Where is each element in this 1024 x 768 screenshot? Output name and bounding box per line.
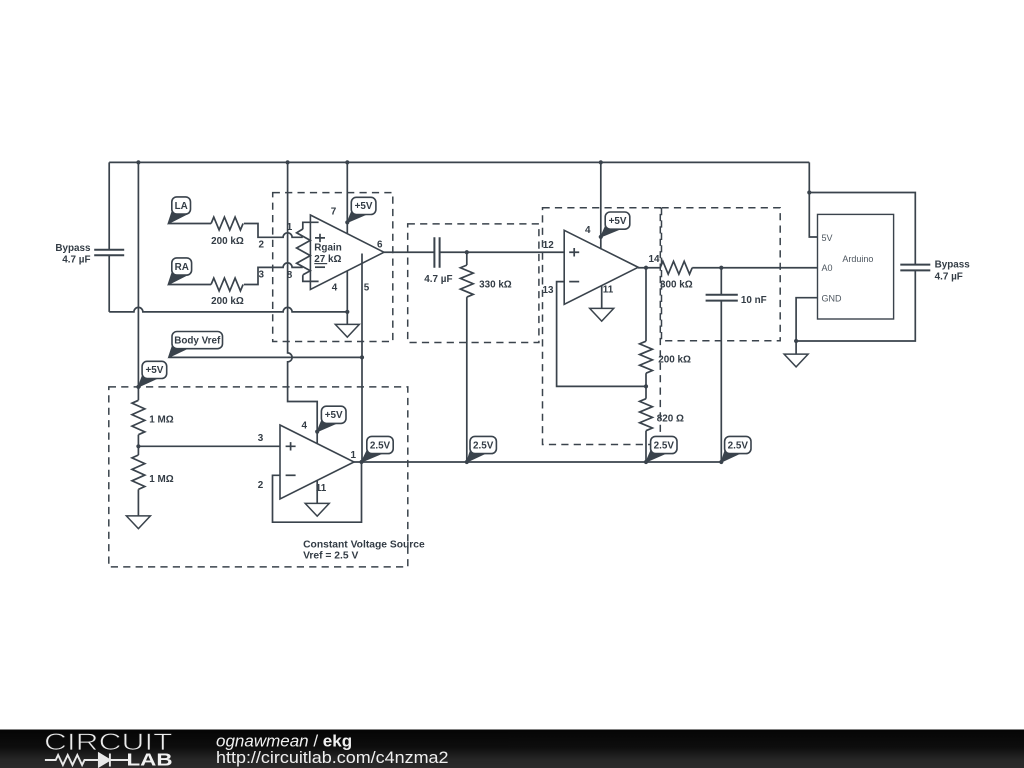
- resistor Rgain zigzag: [297, 229, 311, 275]
- wire 10nF upper lead: [720, 268, 722, 295]
- svg-text:LA: LA: [175, 201, 188, 212]
- svg-text:6: 6: [377, 240, 383, 251]
- wire divider mid to U3 pin3: [138, 445, 280, 447]
- wire R8 to ground: [137, 489, 139, 516]
- part Arduino box: [818, 214, 894, 319]
- resistor R6 820 zigzag: [640, 399, 653, 431]
- wire 10nF to 2.5V rail: [720, 301, 722, 462]
- node junction Arduino ground: [794, 339, 798, 343]
- node junction rail 330k: [465, 460, 469, 464]
- dashed box high-pass filter: [408, 224, 539, 343]
- svg-text:2.5V: 2.5V: [473, 440, 494, 451]
- resistor Rgain pin1 stub: [303, 222, 319, 229]
- node dot divider flag attach: [136, 385, 140, 389]
- node junction top rail x=138: [136, 160, 140, 164]
- svg-text:LAB: LAB: [127, 750, 173, 768]
- resistor R8 1M zigzag: [132, 455, 145, 489]
- node junction feedback divider: [644, 384, 648, 388]
- wire U3 output: [354, 461, 721, 463]
- wire +5V to U2 pin4: [600, 162, 602, 249]
- wire U1 pin6 to C2: [384, 251, 434, 253]
- svg-text:2.5V: 2.5V: [370, 440, 391, 451]
- svg-text:4: 4: [302, 420, 308, 431]
- wire U2 pin11 to ground: [601, 286, 603, 309]
- dashed box gain stage: [543, 208, 661, 445]
- svg-text:300 kΩ: 300 kΩ: [660, 280, 693, 291]
- wire RA to R2: [168, 284, 211, 286]
- wire U1 pin5 ref: [361, 254, 363, 463]
- wire Arduino 5V pin: [809, 193, 817, 238]
- node junction top rail x=600: [599, 160, 603, 164]
- resistor R6 820 lead: [645, 386, 647, 398]
- wire +5V to U1 pin7: [346, 162, 348, 233]
- svg-text:+5V: +5V: [355, 201, 373, 212]
- flag RA: [168, 271, 190, 285]
- wire U3 pin2 feedback: [273, 462, 362, 522]
- ground symbol below U2: [590, 308, 614, 321]
- node junction pin5 Body Vref: [360, 355, 364, 359]
- svg-text:RA: RA: [175, 262, 189, 273]
- svg-text:12: 12: [543, 240, 554, 251]
- node junction top rail x=287: [286, 160, 290, 164]
- resistor Rgain pin8 stub: [303, 275, 319, 281]
- ground symbol below divider: [126, 516, 150, 529]
- wire Body Vref net: [169, 356, 362, 358]
- svg-text:Bypass: Bypass: [55, 243, 91, 254]
- svg-text:4: 4: [585, 225, 591, 236]
- resistor R1 200k zigzag: [211, 217, 243, 230]
- svg-text:10 nF: 10 nF: [741, 295, 767, 306]
- logo resistor diode glyph: [45, 754, 128, 767]
- op-amp U3 triangle: [280, 425, 354, 499]
- wire Arduino GND pin: [796, 298, 817, 341]
- node junction U3 out: [359, 460, 363, 464]
- svg-text:+5V: +5V: [609, 216, 627, 227]
- svg-text:1: 1: [287, 222, 293, 233]
- wire R7 to mid: [137, 435, 139, 447]
- op-amp U1 triangle: [310, 215, 384, 290]
- capacitor C1 Bypass 4.7uF plates: [94, 250, 124, 256]
- resistor R3 330k lead: [466, 252, 468, 265]
- wire left +5V drop to bypass cap C1: [108, 162, 110, 249]
- node junction divider mid: [136, 444, 140, 448]
- svg-text:5V: 5V: [822, 233, 833, 243]
- wire to right bypass cap top: [809, 193, 915, 265]
- op-amp U2 triangle: [564, 230, 638, 304]
- op-amp U2 plus: [569, 248, 579, 256]
- wire R2 to U1 pin3: [244, 263, 303, 285]
- wire +5V drop x=138 to divider: [137, 162, 139, 400]
- dashed box Constant Voltage Source: [109, 387, 408, 567]
- flag +5V at U2 pin4: [601, 225, 623, 237]
- svg-text:GND: GND: [822, 293, 843, 303]
- wire R4 to A0: [692, 267, 817, 269]
- ground symbol below Arduino: [784, 354, 808, 367]
- wire LA to R1: [168, 223, 211, 225]
- svg-text:3: 3: [258, 433, 264, 444]
- svg-text:1 MΩ: 1 MΩ: [149, 414, 173, 425]
- wire R1 to U1 pin2: [244, 224, 303, 238]
- wire C2 to U2 pin12: [440, 251, 565, 253]
- svg-text:1 MΩ: 1 MΩ: [149, 474, 173, 485]
- wire +5V rail to Arduino corner: [808, 162, 810, 192]
- wire Arduino gnd stub: [795, 341, 797, 354]
- node junction rail 10nF: [719, 460, 723, 464]
- op-amp U3 minus: [286, 474, 296, 476]
- svg-text:2: 2: [259, 240, 265, 251]
- svg-text:8: 8: [287, 270, 293, 281]
- node junction rail 820: [644, 460, 648, 464]
- capacitor C2 4.7uF plates: [434, 237, 439, 267]
- svg-text:+5V: +5V: [325, 410, 343, 421]
- node dot U1 pin7 flag attach: [345, 220, 349, 224]
- svg-text:5: 5: [364, 282, 370, 293]
- node junction U2 output: [644, 266, 648, 270]
- svg-text:7: 7: [331, 207, 337, 218]
- node junction U1 pin4 ground net: [345, 310, 349, 314]
- wire U2 pin14 out: [638, 267, 660, 269]
- svg-text:14: 14: [649, 254, 660, 265]
- flag +5V at divider: [138, 374, 160, 387]
- flag LA: [168, 210, 190, 224]
- svg-text:2.5V: 2.5V: [654, 440, 675, 451]
- resistor R3 330k zigzag: [460, 265, 473, 297]
- wire R6 to 2.5V rail: [645, 431, 647, 462]
- svg-text:2.5V: 2.5V: [728, 440, 749, 451]
- wire ground link to bypass cap bottom: [796, 270, 915, 341]
- dashed box instrumentation stage: [273, 193, 393, 342]
- svg-text:1: 1: [351, 450, 357, 461]
- wire U2 pin13 feedback: [557, 282, 646, 387]
- svg-text:200 kΩ: 200 kΩ: [211, 236, 244, 247]
- svg-text:Bypass: Bypass: [935, 260, 971, 271]
- svg-text:11: 11: [603, 284, 614, 295]
- svg-text:A0: A0: [822, 263, 833, 273]
- svg-text:Constant Voltage Source: Constant Voltage Source: [303, 539, 425, 550]
- wire U1 pin4 to ground: [346, 271, 348, 325]
- wire R5 to junction: [645, 373, 647, 386]
- wire C1 bottom to ground net: [108, 255, 110, 312]
- resistor R5 200k zigzag: [640, 341, 653, 373]
- resistor R7 1M zigzag: [132, 400, 145, 434]
- flag 2.5V at 820: [646, 449, 669, 462]
- capacitor C4 Bypass right plates: [900, 265, 930, 271]
- resistor R4 300k zigzag: [660, 261, 692, 274]
- resistor R2 200k zigzag: [211, 278, 243, 291]
- node junction 330k tap: [465, 250, 469, 254]
- capacitor C3 10nF plates: [706, 295, 738, 301]
- svg-text:Arduino: Arduino: [842, 254, 873, 264]
- svg-text:13: 13: [543, 285, 554, 296]
- op-amp U1 plus: [315, 234, 325, 242]
- svg-text:4.7 µF: 4.7 µF: [935, 272, 963, 283]
- node dot U3 pin4 flag attach: [315, 430, 319, 434]
- flag 2.5V at 330k: [467, 449, 488, 462]
- flag +5V at U3 pin4: [317, 419, 339, 432]
- node dot U2 pin4 flag attach: [599, 235, 603, 239]
- svg-text:330 kΩ: 330 kΩ: [479, 280, 512, 291]
- resistor R8 1M upper lead: [137, 446, 139, 455]
- svg-text:Vref = 2.5 V: Vref = 2.5 V: [303, 551, 358, 562]
- dashed box low-pass filter: [662, 208, 781, 341]
- flag 2.5V at 10nF: [721, 449, 742, 462]
- svg-text:4: 4: [332, 282, 338, 293]
- svg-text:4.7 µF: 4.7 µF: [62, 255, 90, 266]
- wire R3 to 2.5V rail: [466, 297, 468, 462]
- ground symbol below U3: [305, 503, 329, 516]
- wire +5V drop x=287 to U3: [288, 162, 318, 443]
- svg-text:Body Vref: Body Vref: [174, 335, 221, 346]
- wire U3 pin11 to ground: [316, 480, 318, 503]
- svg-text:3: 3: [259, 269, 265, 280]
- svg-text:200 kΩ: 200 kΩ: [211, 296, 244, 307]
- svg-text:4.7 µF: 4.7 µF: [424, 274, 452, 285]
- flag 2.5V at U3 out: [362, 449, 385, 462]
- node junction 10nF tap: [719, 266, 723, 270]
- node junction Arduino 5V: [807, 190, 811, 194]
- op-amp U1 minus: [315, 266, 325, 268]
- node junction top rail x=347: [345, 160, 349, 164]
- svg-text:Rgain: Rgain: [314, 243, 341, 254]
- ground symbol below U1: [335, 324, 359, 337]
- wire ground net horizontal: [109, 307, 347, 312]
- svg-text:http://circuitlab.com/c4nzma2: http://circuitlab.com/c4nzma2: [216, 748, 449, 767]
- op-amp U3 plus: [286, 442, 296, 450]
- label U1 value underline: [314, 263, 327, 265]
- svg-text:2: 2: [258, 480, 264, 491]
- wire R5 200k upper lead: [645, 268, 647, 341]
- flag +5V at U1 pin7: [347, 210, 369, 222]
- wire +5V top rail: [109, 161, 809, 163]
- svg-text:200 kΩ: 200 kΩ: [658, 354, 691, 365]
- op-amp U2 minus: [569, 281, 579, 283]
- svg-text:+5V: +5V: [145, 365, 163, 376]
- flag Body Vref: [169, 344, 190, 357]
